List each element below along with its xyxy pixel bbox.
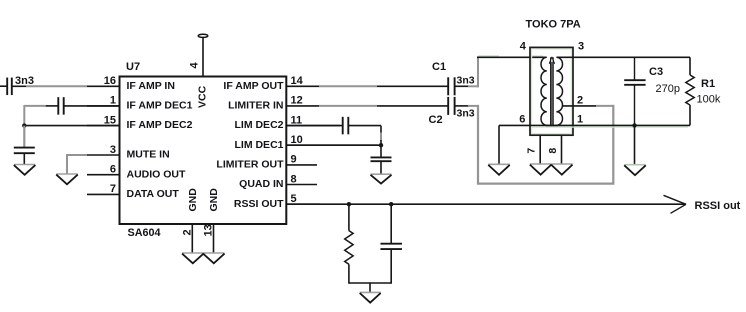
pin number 4 (rotated) (189, 62, 201, 69)
pin 11 stub (right, LIM DEC2) (286, 125, 340, 127)
transformer core line 1 (550, 57, 552, 125)
C2 reference label (429, 114, 443, 126)
svg-text:13: 13 (203, 224, 215, 236)
wire pin15 net (23, 125, 119, 127)
svg-text:AUDIO OUT: AUDIO OUT (127, 168, 187, 180)
wire pin12 run (319, 105, 448, 107)
pin 6 label (519, 113, 525, 125)
decoupling capacitor to ground (14, 148, 35, 154)
wire pin14 run (319, 85, 448, 87)
capacitor C3 (624, 80, 645, 85)
pin label IF AMP IN (127, 80, 175, 92)
pin number 10 (291, 134, 303, 146)
pin label LIM DEC2 (234, 119, 283, 131)
svg-text:R1: R1 (701, 78, 715, 90)
wire corner down to pin15 net (23, 105, 25, 126)
capacitor C1 3n3 (448, 77, 454, 95)
wire pin11 to cap (286, 125, 342, 127)
svg-text:DATA OUT: DATA OUT (127, 188, 180, 200)
svg-text:3n3: 3n3 (457, 74, 475, 86)
pin 12 stub (right, LIMITER IN) (286, 105, 319, 107)
pin number 5 (291, 193, 297, 205)
svg-text:IF AMP OUT: IF AMP OUT (223, 80, 284, 92)
pin label QUAD IN (239, 178, 283, 190)
wire RC bottom (349, 282, 391, 284)
transformer leg pin7 (539, 135, 541, 164)
pin number 1 (110, 95, 116, 107)
R1 reference label (701, 78, 715, 90)
svg-text:C1: C1 (432, 61, 446, 73)
pin 3 stub (left, MUTE IN) (87, 154, 120, 156)
pin 4 label (520, 41, 527, 53)
pin 14 stub (right, IF AMP OUT) (286, 85, 319, 87)
pin label VCC (rotated) (197, 85, 209, 108)
VCC terminal circle (198, 34, 208, 37)
ground pin8 (551, 164, 573, 175)
pin label IF AMP DEC2 (127, 119, 193, 131)
pin number 15 (104, 114, 116, 126)
wire C3 node to ground (634, 125, 636, 164)
wire cap to pin 1 (64, 105, 120, 107)
wire C2 to loop (455, 105, 479, 107)
junction C3 bottom (632, 123, 636, 127)
svg-text:8: 8 (547, 148, 559, 154)
capacitor LIM DEC1 to ground (371, 157, 392, 161)
wire pin3 to C3/R1 (557, 56, 690, 58)
wire pin2 stub (563, 105, 597, 107)
ground pin7 (530, 164, 552, 175)
pin label AUDIO OUT (127, 168, 187, 180)
svg-text:MUTE IN: MUTE IN (127, 149, 170, 161)
svg-text:1: 1 (110, 95, 116, 107)
TOKO 7PA title (526, 18, 581, 30)
ground C3/R1 node (624, 165, 646, 176)
ground RSSI RC (360, 292, 381, 302)
wire cap to corner (348, 125, 381, 127)
pin 8 label (rotated) (547, 148, 559, 154)
wire loop up to pin 2 (612, 105, 614, 184)
junction RSSI cap (389, 202, 393, 206)
pin number 12 (291, 95, 303, 107)
svg-text:11: 11 (291, 114, 303, 126)
ground under LIM DEC1 cap (371, 174, 392, 183)
resistor R1 (686, 75, 694, 105)
capacitor C2 3n3 (448, 97, 454, 115)
pin label RSSI OUT (234, 198, 284, 210)
pin 9 stub (right, LIMITER OUT) (286, 164, 317, 166)
wire mute to ground corner (66, 154, 87, 174)
svg-text:GND: GND (208, 188, 220, 212)
pin label LIMITER OUT (216, 159, 284, 171)
svg-text:SA604: SA604 (128, 227, 161, 239)
wire C3 bottom (634, 85, 636, 126)
svg-text:3: 3 (578, 41, 584, 53)
pin 7 label (rotated) (525, 148, 537, 154)
ground left decoupling (14, 165, 35, 175)
svg-text:1: 1 (577, 113, 583, 125)
input capacitor 3n3 (7, 78, 12, 96)
svg-text:IF AMP DEC2: IF AMP DEC2 (127, 119, 193, 131)
svg-text:LIM DEC1: LIM DEC1 (234, 139, 283, 151)
pin number 16 (104, 75, 116, 87)
wire resistor bottom (348, 264, 350, 283)
svg-text:6: 6 (519, 113, 525, 125)
wire down to cap (380, 145, 382, 157)
C1 value 3n3 (457, 74, 475, 86)
pin 8 stub (right, QUAD IN) (286, 184, 317, 186)
svg-text:C3: C3 (649, 66, 663, 78)
wire pin6 down (498, 125, 500, 164)
pin label MUTE IN (127, 149, 170, 161)
GND pin 13 wire (213, 224, 215, 253)
pin label GND (pin 2, rotated) (187, 188, 199, 212)
transformer core line 2 (552, 57, 554, 125)
ground under pin 13 (203, 253, 225, 263)
wire pin1 cap to corner (24, 105, 58, 107)
pin number 13 (rotated) (203, 224, 215, 236)
svg-text:QUAD IN: QUAD IN (239, 178, 283, 190)
pin number 14 (291, 75, 304, 87)
GND pin 2 wire (191, 224, 193, 253)
transformer primary coil (541, 57, 547, 125)
wire cap top (390, 204, 392, 244)
pin 3 label (578, 41, 584, 53)
wire RSSI out line (286, 203, 686, 205)
svg-text:GND: GND (187, 188, 199, 212)
wire to input cap (0, 85, 7, 87)
pin 1 label (577, 113, 583, 125)
wire junction to decoupling cap (23, 126, 25, 148)
svg-text:4: 4 (189, 62, 201, 69)
wire loop to transformer pin 2 (596, 105, 614, 107)
transformer secondary coil (556, 57, 562, 125)
wire pin6 (499, 124, 558, 126)
svg-text:10: 10 (291, 134, 303, 146)
wire bottom net pin1 to R1 (531, 125, 690, 127)
transformer boundary box (530, 47, 573, 135)
C1 reference label (432, 61, 446, 73)
pin number 11 (291, 114, 303, 126)
svg-text:LIM DEC2: LIM DEC2 (234, 119, 283, 131)
wire cap bottom (390, 249, 392, 284)
svg-text:14: 14 (291, 75, 304, 87)
pin label IF AMP OUT (223, 80, 284, 92)
wire to ground (369, 283, 371, 292)
pin number 9 (291, 154, 297, 166)
svg-text:16: 16 (104, 75, 116, 87)
svg-text:7: 7 (525, 148, 537, 154)
svg-text:3: 3 (110, 144, 116, 156)
svg-text:3n3: 3n3 (457, 108, 475, 120)
svg-text:LIMITER OUT: LIMITER OUT (216, 159, 284, 171)
svg-text:LIMITER IN: LIMITER IN (228, 100, 283, 112)
svg-text:5: 5 (291, 193, 297, 205)
pin label DATA OUT (127, 188, 180, 200)
svg-text:12: 12 (291, 95, 303, 107)
svg-text:2: 2 (577, 94, 583, 106)
pin 1 stub (left, IF AMP DEC1) (87, 105, 120, 107)
svg-text:RSSI out: RSSI out (695, 200, 741, 212)
pin 15 stub (left, IF AMP DEC2) (87, 125, 120, 127)
pin 10 stub (right, LIM DEC1) (286, 144, 378, 146)
pin 5 stub (right, RSSI OUT) (286, 203, 320, 205)
svg-text:RSSI OUT: RSSI OUT (234, 198, 284, 210)
svg-text:270p: 270p (656, 83, 680, 95)
resistor R1 top lead (689, 57, 691, 75)
pin 6 stub (left, AUDIO OUT) (87, 174, 120, 176)
wire pin10 run (286, 144, 381, 146)
wire to transformer pin 4 (477, 56, 546, 58)
resistor R1 bottom lead (689, 105, 691, 125)
svg-text:100k: 100k (697, 94, 721, 106)
svg-text:IF AMP IN: IF AMP IN (127, 80, 175, 92)
pin number 6 (110, 164, 116, 176)
pin label LIM DEC1 (234, 139, 283, 151)
U7 reference label (126, 61, 140, 73)
svg-text:C2: C2 (429, 114, 443, 126)
svg-text:3n3: 3n3 (15, 75, 34, 87)
pin number 2 (rotated) (182, 229, 194, 235)
capacitor on LIM DEC2 (343, 117, 349, 135)
wire cap to ground (23, 153, 25, 164)
wire loop down (477, 105, 479, 184)
svg-text:4: 4 (520, 41, 527, 53)
pin label GND (pin 13, rotated) (208, 188, 220, 212)
pin 16 stub (left, IF AMP IN) (87, 85, 120, 87)
svg-text:7: 7 (110, 183, 116, 195)
VCC pin 4 wire (202, 38, 204, 77)
svg-text:2: 2 (182, 229, 194, 235)
wire corner down to pin10 (380, 126, 382, 146)
wire C3 top (634, 57, 636, 80)
C3 value 270p (656, 83, 680, 95)
svg-text:8: 8 (291, 173, 297, 185)
pin 2 label (577, 94, 583, 106)
C3 reference label (649, 66, 663, 78)
wire C1 to riser (455, 85, 479, 87)
ground on MUTE IN (56, 174, 78, 184)
wire riser up to pin4 row (477, 56, 479, 87)
capacitor on RSSI (380, 244, 402, 249)
pin label IF AMP DEC1 (127, 100, 193, 112)
junction pin10 node (379, 143, 383, 147)
svg-text:9: 9 (291, 154, 297, 166)
RSSI out label (695, 200, 741, 212)
op-amp/IC body U7 (SA604) (120, 77, 287, 225)
svg-text:6: 6 (110, 164, 116, 176)
svg-text:U7: U7 (126, 61, 140, 73)
capacitor on IF AMP DEC1 (58, 97, 63, 115)
pin 7 stub (left, DATA OUT) (87, 193, 120, 195)
C2 value 3n3 (457, 108, 475, 120)
RSSI out arrow (664, 195, 687, 213)
wire loop bottom (477, 183, 615, 185)
junction node pin15 (22, 123, 26, 127)
svg-text:VCC: VCC (197, 85, 209, 108)
pin number 8 (291, 173, 297, 185)
transformer leg pin8 (561, 135, 563, 164)
pin number 7 (110, 183, 116, 195)
svg-text:IF AMP DEC1: IF AMP DEC1 (127, 100, 193, 112)
SA604 value label (128, 227, 161, 239)
R1 value 100k (697, 94, 721, 106)
transformer tuning arrow (549, 57, 554, 126)
junction RSSI resistor (347, 202, 351, 206)
svg-text:15: 15 (104, 114, 116, 126)
svg-text:TOKO 7PA: TOKO 7PA (526, 18, 581, 30)
pin label LIMITER IN (228, 100, 283, 112)
ground under pin 2 (182, 253, 204, 263)
ground pin6 (488, 164, 510, 175)
wire resistor top (348, 204, 350, 230)
resistor on RSSI (345, 231, 353, 265)
wire cap to ground (380, 161, 382, 174)
input cap value 3n3 (15, 75, 34, 87)
pin number 3 (110, 144, 116, 156)
wire input cap to pin 16 (12, 85, 87, 87)
